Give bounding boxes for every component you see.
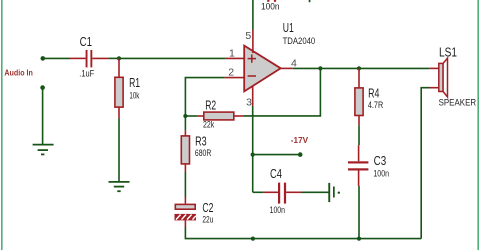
- wire C4 to terminal: [301, 191, 329, 193]
- svg-text:R4: R4: [368, 85, 379, 100]
- junction node rail C2 branch: [251, 237, 255, 241]
- capacitor C4: [253, 166, 301, 215]
- svg-text:C1: C1: [80, 34, 92, 49]
- svg-text:TDA2040: TDA2040: [283, 36, 316, 46]
- pin 4 output stub: [280, 67, 293, 69]
- wire R3 to C2: [184, 172, 186, 197]
- svg-text:1: 1: [229, 48, 235, 60]
- junction node R2/R3: [183, 114, 187, 118]
- svg-text:R3: R3: [195, 134, 207, 149]
- svg-text:-17V: -17V: [291, 135, 309, 145]
- svg-text:100n: 100n: [373, 168, 389, 178]
- resistor R1: [115, 58, 140, 118]
- svg-text:100n: 100n: [261, 2, 280, 12]
- svg-text:R2: R2: [205, 98, 216, 113]
- svg-text:U1: U1: [283, 20, 294, 35]
- svg-text:Audio In: Audio In: [4, 68, 33, 78]
- svg-text:680R: 680R: [195, 148, 211, 158]
- wire R1 to ground: [118, 119, 120, 182]
- svg-text:C4: C4: [270, 166, 282, 181]
- wire R2 to feedback corner: [244, 68, 321, 116]
- svg-text:22u: 22u: [202, 214, 213, 224]
- junction node rail C3 branch: [357, 237, 361, 241]
- capacitor C3: [348, 145, 389, 186]
- junction node C1/R1: [117, 56, 121, 60]
- sheet border left: [1, 0, 3, 250]
- wire pin2 horizontal: [185, 78, 224, 116]
- ground symbol under R1: [109, 182, 130, 191]
- svg-text:C3: C3: [374, 153, 387, 168]
- wire output line: [293, 67, 430, 69]
- pin 2 stub: [225, 77, 244, 79]
- sheet border right: [477, 0, 479, 250]
- ground symbol left: [33, 145, 54, 155]
- ground terminal dot below input: [40, 85, 45, 90]
- capacitor C2 electrolytic: [175, 197, 214, 227]
- junction node feedback: [318, 66, 322, 70]
- svg-text:2: 2: [228, 66, 234, 78]
- capacitor top 100n remnant: [261, 0, 280, 12]
- capacitor C1: [70, 34, 109, 78]
- pin 5 stub: [252, 30, 254, 54]
- wire C3 to rail: [358, 186, 360, 239]
- svg-text:3: 3: [246, 97, 252, 109]
- pin 1 stub: [225, 57, 244, 59]
- wire R4 to C3: [358, 125, 360, 145]
- svg-text:10k: 10k: [129, 90, 139, 100]
- svg-text:LS1: LS1: [439, 44, 457, 59]
- wire input to C1: [43, 57, 70, 59]
- op-amp U1: [244, 20, 315, 91]
- svg-text:.1uF: .1uF: [79, 68, 94, 78]
- resistor R4: [355, 68, 383, 125]
- wire top stub right: [309, 0, 311, 2]
- wire ground drop left: [42, 88, 44, 145]
- pin 3 stub: [252, 87, 254, 107]
- terminal dot -17V: [298, 152, 303, 157]
- terminal pin symbol: [328, 183, 340, 202]
- wire C2 to rail: [185, 227, 421, 239]
- svg-text:4.7R: 4.7R: [368, 100, 383, 110]
- resistor R3: [181, 116, 211, 172]
- svg-text:SPEAKER: SPEAKER: [439, 97, 477, 107]
- node Audio In terminal dot: [41, 56, 46, 61]
- wire -17V tap: [253, 154, 301, 156]
- speaker LS1: [430, 44, 476, 107]
- wire top supply vertical: [252, 0, 254, 30]
- junction node R4: [357, 66, 361, 70]
- svg-text:5: 5: [245, 30, 251, 42]
- svg-text:22k: 22k: [203, 120, 215, 130]
- junction node -17V tap: [251, 153, 255, 157]
- wire node to pin1: [119, 57, 225, 59]
- wire speaker return: [421, 88, 430, 239]
- wire C1 to node: [109, 57, 119, 59]
- svg-text:C2: C2: [202, 200, 213, 215]
- svg-text:R1: R1: [129, 75, 140, 90]
- resistor R2: [185, 98, 243, 130]
- svg-text:100n: 100n: [270, 205, 285, 215]
- wire pin3 down: [252, 106, 254, 192]
